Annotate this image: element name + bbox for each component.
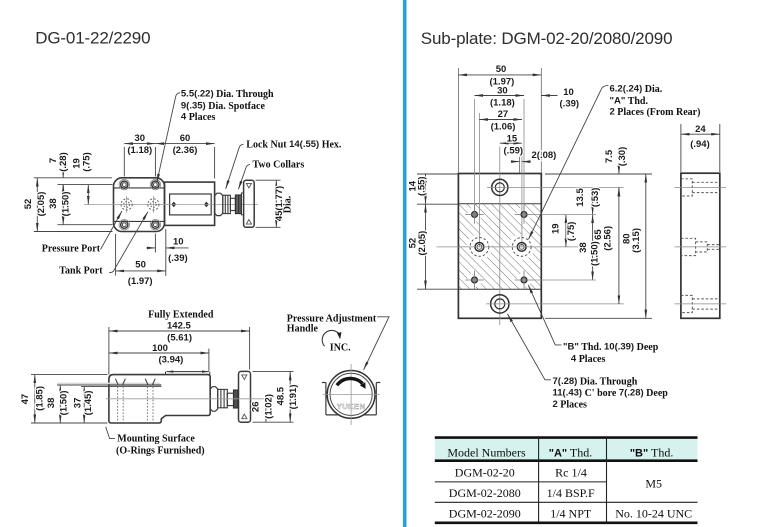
svg-text:4 Places: 4 Places xyxy=(571,353,606,365)
svg-text:(.59): (.59) xyxy=(504,146,524,157)
handle centerline horizontal xyxy=(323,393,380,395)
svg-text:Model Numbers: Model Numbers xyxy=(447,445,526,459)
column line 2 xyxy=(606,438,608,523)
svg-text:2 Places: 2 Places xyxy=(553,399,588,411)
svg-text:(.53): (.53) xyxy=(590,188,601,208)
dim 13.5 (.53) xyxy=(592,187,594,214)
svg-text:(.75): (.75) xyxy=(566,222,577,242)
B thread hole bottom-left xyxy=(465,271,484,290)
svg-text:(1.50): (1.50) xyxy=(58,390,69,415)
tank port (dashed) xyxy=(148,196,159,213)
dim 47 (1.85) xyxy=(31,375,108,423)
handle disk arrow top xyxy=(246,183,251,188)
dim 38 (1.50) left xyxy=(58,185,113,225)
flange plate xyxy=(114,178,165,232)
table border bottom xyxy=(435,521,698,524)
svg-text:11(.43) C' bore 7(.28) Deep: 11(.43) C' bore 7(.28) Deep xyxy=(553,387,669,399)
black crescent arrow xyxy=(337,378,363,385)
dim 30 (1.18) sub-plate xyxy=(475,95,525,97)
flange boss line lower xyxy=(114,220,165,222)
leader 7 dia note xyxy=(508,314,552,380)
svg-text:50: 50 xyxy=(496,64,507,75)
B thread hole top-right xyxy=(515,205,534,224)
flange top edge line xyxy=(109,384,161,386)
svg-text:"A" Thd.: "A" Thd. xyxy=(610,96,649,108)
svg-text:Tank Port: Tank Port xyxy=(59,265,103,276)
svg-text:142.5: 142.5 xyxy=(167,320,191,331)
knurled ring (side view) xyxy=(234,390,239,408)
o-ring column left (dotted) xyxy=(118,387,124,423)
dim 10 (.39) bottom xyxy=(147,229,189,276)
dim 100 (3.94) xyxy=(109,349,209,372)
valve body (top view) xyxy=(114,178,215,232)
svg-text:37: 37 xyxy=(73,398,84,409)
extension B row top right xyxy=(533,214,596,216)
svg-text:(2.05): (2.05) xyxy=(417,231,428,256)
extension plate right edge xyxy=(540,68,542,173)
svg-text:(5.61): (5.61) xyxy=(167,332,192,343)
dim 30 (1.18) top xyxy=(124,144,214,179)
dim 26 (1.02) xyxy=(253,399,294,422)
handle centerline vertical xyxy=(350,364,352,425)
leader pressure port xyxy=(97,211,122,250)
leader B thread note xyxy=(528,285,561,345)
svg-text:DGM-02-2080: DGM-02-2080 xyxy=(449,486,521,500)
extension B row bottom right xyxy=(533,279,596,281)
svg-text:(.55): (.55) xyxy=(417,176,428,196)
hidden flange edge (dashed) xyxy=(164,183,166,226)
svg-text:10: 10 xyxy=(563,87,574,98)
dim 7.5 (.30) xyxy=(618,166,620,196)
hidden top hole (dashed) xyxy=(681,179,720,196)
leader two collars xyxy=(238,164,250,189)
svg-text:"A" Thd.: "A" Thd. xyxy=(549,445,593,459)
svg-text:(.75): (.75) xyxy=(81,152,92,172)
B thread hole bottom-right xyxy=(515,271,534,290)
nameplate rivet right xyxy=(204,202,209,208)
svg-text:13.5: 13.5 xyxy=(575,188,586,207)
dim 15 (.59) xyxy=(500,142,522,144)
row line 1 xyxy=(435,481,607,483)
svg-text:38: 38 xyxy=(578,242,589,253)
leader mounting surface xyxy=(106,427,115,439)
svg-text:7.5: 7.5 xyxy=(604,149,615,163)
svg-text:(1.50): (1.50) xyxy=(61,191,72,216)
svg-text:Handle: Handle xyxy=(287,324,319,335)
B thread hole top-left xyxy=(465,205,484,224)
svg-text:(2.56): (2.56) xyxy=(602,226,613,251)
side view centerline bottom xyxy=(674,303,726,305)
A ports centerline xyxy=(437,246,579,248)
svg-text:Mounting Surface: Mounting Surface xyxy=(117,434,195,445)
leader spotface note xyxy=(157,93,181,183)
svg-text:9(.35) Dia. Spotface: 9(.35) Dia. Spotface xyxy=(181,100,266,112)
svg-text:Dia.: Dia. xyxy=(283,195,294,213)
flange second line xyxy=(119,386,162,388)
adjuster collar block xyxy=(223,195,231,213)
dim 10 (.39) sub-plate xyxy=(541,95,557,97)
leader tank port xyxy=(109,212,148,273)
seal hooks right xyxy=(145,379,155,385)
neck (side view) xyxy=(227,393,233,405)
svg-text:4 Places: 4 Places xyxy=(181,112,216,124)
extension 2mm offset line xyxy=(519,152,521,173)
svg-text:24: 24 xyxy=(695,124,706,135)
header background xyxy=(435,439,698,460)
svg-text:47: 47 xyxy=(20,394,31,405)
svg-text:(.30): (.30) xyxy=(617,147,628,167)
svg-text:(1.97): (1.97) xyxy=(128,276,153,287)
dim 50 (1.97) bottom xyxy=(116,234,166,276)
dim 37 (1.45) side xyxy=(81,387,119,423)
seal hooks left xyxy=(115,379,125,385)
svg-text:60: 60 xyxy=(180,133,191,144)
dim 50 (1.97) xyxy=(458,74,541,76)
svg-text:YUKEN: YUKEN xyxy=(337,402,366,411)
nameplate rectangle xyxy=(170,194,212,215)
svg-text:No. 10-24 UNC: No. 10-24 UNC xyxy=(615,507,692,521)
svg-text:DGM-02-20: DGM-02-20 xyxy=(455,466,515,480)
top hole centerline xyxy=(487,186,624,188)
handle inner circle xyxy=(330,373,372,415)
collar block (side view) xyxy=(218,389,228,407)
svg-text:2 Places (From Rear): 2 Places (From Rear) xyxy=(610,107,701,119)
hidden bottom hole (dashed) xyxy=(681,295,720,312)
svg-text:1/4 BSP.F: 1/4 BSP.F xyxy=(547,486,595,500)
extension column A right xyxy=(521,150,523,247)
dim 38 (1.50) side xyxy=(57,385,109,423)
vertical centerline of plate xyxy=(499,147,501,326)
leader lock nut xyxy=(226,144,244,189)
dim 14 (.55) sub-plate left xyxy=(417,174,458,204)
bolt hole top-right xyxy=(150,179,160,189)
adjuster lock nut (top view) xyxy=(215,193,223,215)
handle back plate (top view) xyxy=(241,193,243,215)
table border top xyxy=(435,436,698,439)
side view centerline middle xyxy=(674,246,726,248)
svg-text:(1.50): (1.50) xyxy=(589,241,600,266)
extension plate left edge xyxy=(457,68,459,173)
dim 45 (1.77) Dia. right xyxy=(256,180,281,227)
extension column B right xyxy=(523,99,525,215)
bolt hole bottom-right xyxy=(150,220,160,230)
svg-text:(1.91): (1.91) xyxy=(288,384,299,409)
dim 19 (.75) sub-plate xyxy=(565,215,567,247)
top mounting hole xyxy=(492,179,508,195)
bolt hole top-left xyxy=(119,179,129,189)
svg-text:(1.18): (1.18) xyxy=(127,145,152,156)
nameplate rivet left xyxy=(171,202,176,208)
svg-text:"B" Thd.: "B" Thd. xyxy=(630,445,674,459)
crescent arrowhead xyxy=(360,382,366,389)
svg-text:48.5: 48.5 xyxy=(275,386,286,405)
INC rotation arrow xyxy=(322,330,339,346)
svg-text:(3.94): (3.94) xyxy=(158,355,183,366)
svg-text:100: 100 xyxy=(152,343,168,354)
centerline (side view) xyxy=(106,398,269,400)
dim 65 (2.56) xyxy=(618,187,620,304)
svg-text:Fully Extended: Fully Extended xyxy=(148,309,214,320)
svg-text:Two Collars: Two Collars xyxy=(253,159,305,170)
svg-text:26: 26 xyxy=(251,402,262,413)
dim 48.5 (1.91) xyxy=(253,371,294,422)
extension column A left xyxy=(478,113,480,247)
dim 19 (.75) left xyxy=(87,185,89,205)
dim 52 (2.05) left xyxy=(34,178,113,232)
leader 6.2 dia note xyxy=(529,85,609,239)
svg-text:Pressure Adjustment: Pressure Adjustment xyxy=(287,313,377,324)
svg-text:(O-Rings Furnished): (O-Rings Furnished) xyxy=(116,446,205,457)
svg-text:(.39): (.39) xyxy=(168,253,188,264)
handle disk arrow bottom xyxy=(246,220,251,225)
svg-text:1/4 NPT: 1/4 NPT xyxy=(550,507,592,521)
svg-text:Lock Nut 14(.55) Hex.: Lock Nut 14(.55) Hex. xyxy=(246,139,342,151)
bottom mounting hole xyxy=(491,295,509,313)
svg-text:M5: M5 xyxy=(645,477,662,491)
adjuster neck xyxy=(230,198,235,210)
svg-text:27: 27 xyxy=(498,109,509,120)
lock nut (side view) xyxy=(210,387,218,412)
svg-text:(3.15): (3.15) xyxy=(631,228,642,253)
main body block xyxy=(165,182,215,225)
svg-text:Rc 1/4: Rc 1/4 xyxy=(555,466,587,480)
svg-text:30: 30 xyxy=(497,85,508,96)
svg-text:50: 50 xyxy=(135,259,146,270)
A port right xyxy=(512,238,531,257)
extension column B left xyxy=(474,99,476,215)
svg-text:DGM-02-2090: DGM-02-2090 xyxy=(449,507,521,521)
band bottom line xyxy=(458,288,541,290)
svg-text:19: 19 xyxy=(551,223,562,234)
handle disk (top view) xyxy=(244,180,255,227)
dim 38 (1.50) sub-plate xyxy=(592,215,594,281)
svg-text:52: 52 xyxy=(23,199,34,210)
svg-text:"B" Thd. 10(.39) Deep: "B" Thd. 10(.39) Deep xyxy=(563,341,659,353)
bottom hole centerline xyxy=(486,303,624,305)
svg-text:(2.36): (2.36) xyxy=(173,145,198,156)
side view centerline top xyxy=(674,186,726,188)
handle bracket xyxy=(322,383,380,415)
svg-text:5.5(.22) Dia. Through: 5.5(.22) Dia. Through xyxy=(181,89,274,101)
svg-text:(2.05): (2.05) xyxy=(36,192,47,217)
gray surface line xyxy=(57,382,160,384)
svg-text:(.39): (.39) xyxy=(560,98,580,109)
valve outline (side view) xyxy=(109,375,210,423)
disk arrow bottom (side) xyxy=(242,414,247,419)
hidden A port (dashed) xyxy=(681,238,720,255)
o-ring column right (dotted) xyxy=(147,387,153,423)
dim Fully Extended 142.5 (5.61) xyxy=(109,327,250,375)
handle disk (side view) xyxy=(239,371,251,422)
svg-text:7(.28) Dia. Through: 7(.28) Dia. Through xyxy=(553,376,638,388)
svg-text:30: 30 xyxy=(135,133,146,144)
bolt hole bottom-left xyxy=(119,220,129,230)
svg-text:2(.08): 2(.08) xyxy=(532,150,557,161)
dim 2 (.08) xyxy=(512,161,529,163)
svg-text:INC.: INC. xyxy=(330,343,351,354)
column line 1 xyxy=(538,438,540,523)
svg-text:(.28): (.28) xyxy=(58,152,69,172)
svg-text:6.2(.24) Dia.: 6.2(.24) Dia. xyxy=(610,83,663,95)
svg-text:10: 10 xyxy=(173,236,184,247)
disk arrow top (side) xyxy=(242,375,247,380)
svg-text:15: 15 xyxy=(507,133,518,144)
dim 80 (3.15) xyxy=(545,174,652,318)
svg-text:(1.85): (1.85) xyxy=(34,386,45,411)
svg-text:(1.02): (1.02) xyxy=(263,394,274,419)
hatched section band xyxy=(458,204,541,289)
dim 27 (1.06) xyxy=(479,119,522,121)
stroke double arrow on body top xyxy=(166,372,210,375)
flange boss line upper xyxy=(114,187,165,189)
A port left xyxy=(470,238,489,257)
horizontal centerline (top view) xyxy=(84,203,258,205)
row line 2 xyxy=(435,501,698,503)
svg-text:(.94): (.94) xyxy=(690,139,710,150)
svg-text:(1.45): (1.45) xyxy=(83,390,94,415)
pressure port (dashed) xyxy=(121,196,132,213)
divider blue line xyxy=(403,0,407,527)
plate outline xyxy=(458,174,541,319)
svg-text:Pressure Port: Pressure Port xyxy=(42,243,101,254)
dim 52 (2.05) sub-plate left xyxy=(417,204,458,289)
svg-text:(1.06): (1.06) xyxy=(491,121,516,132)
band top line xyxy=(458,203,541,205)
dim 24 (.94) xyxy=(681,124,720,172)
svg-text:(1.18): (1.18) xyxy=(490,98,515,109)
side view outline xyxy=(681,173,720,318)
svg-text:Sub-plate: DGM-02-20/2080/2090: Sub-plate: DGM-02-20/2080/2090 xyxy=(421,29,673,48)
svg-text:38: 38 xyxy=(46,398,57,409)
handle outer circle xyxy=(327,371,375,419)
svg-text:38: 38 xyxy=(48,198,59,209)
svg-text:DG-01-22/2290: DG-01-22/2290 xyxy=(35,29,150,48)
knurled ring (top view) xyxy=(235,195,241,214)
dim 7 (.28) left xyxy=(58,171,113,192)
leader pressure adjustment handle xyxy=(364,317,389,370)
header separator xyxy=(435,459,698,462)
